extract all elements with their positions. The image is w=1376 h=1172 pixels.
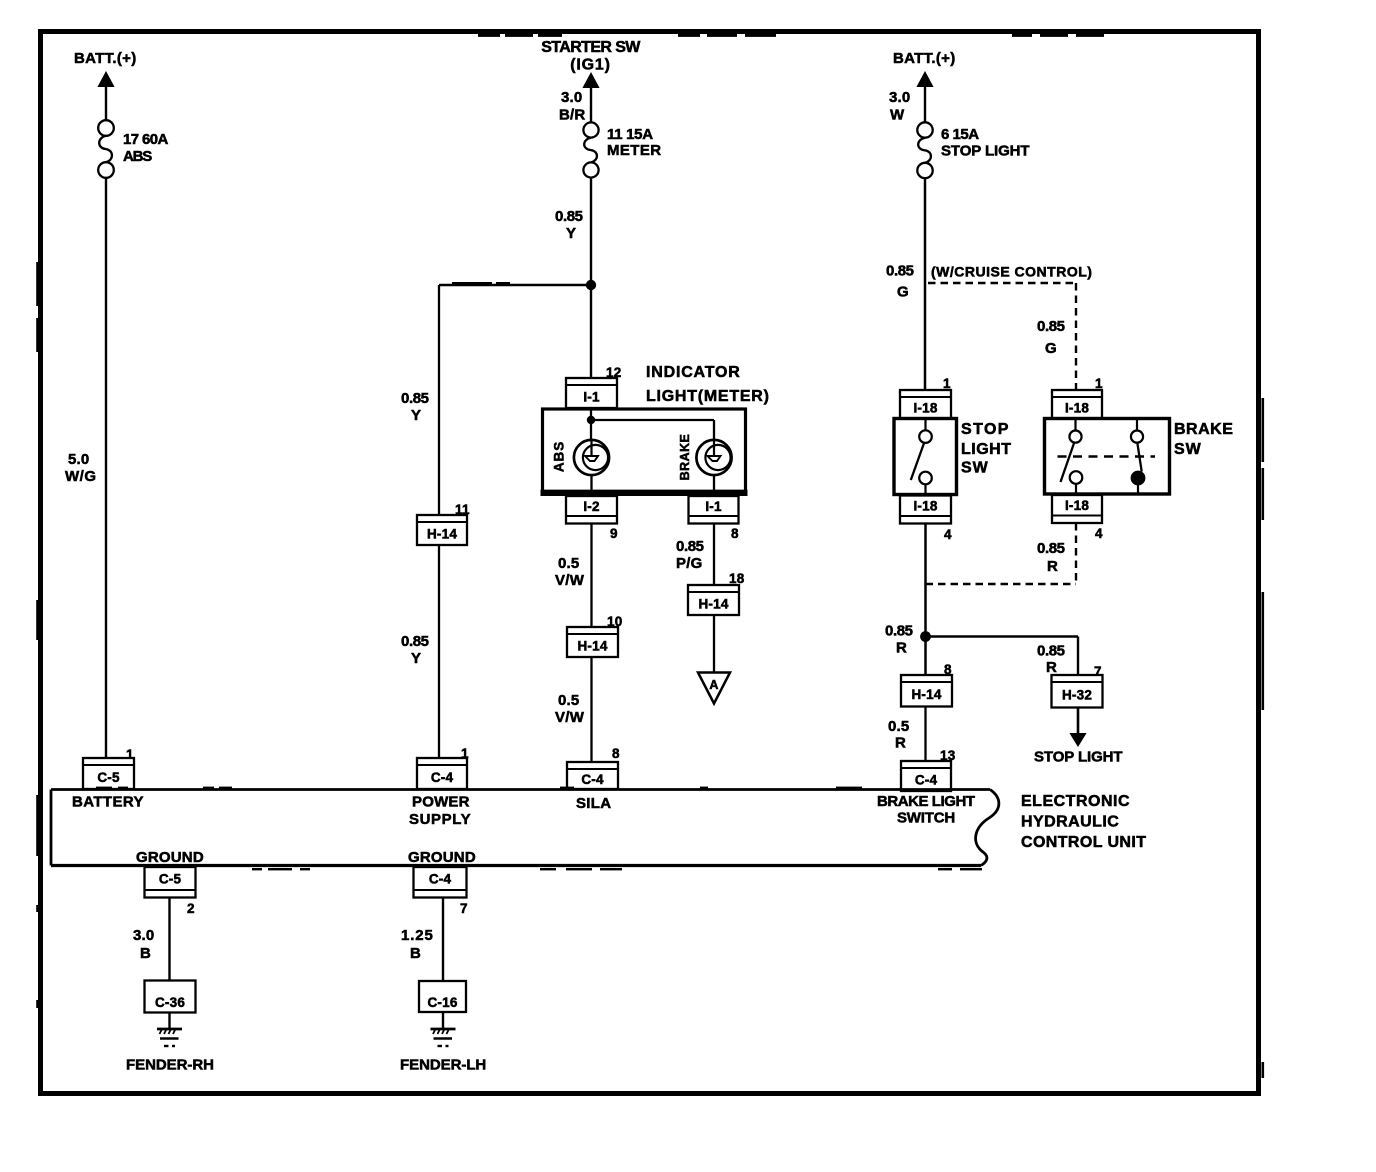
svg-text:4: 4 [1095, 526, 1103, 541]
svg-text:0.5: 0.5 [888, 718, 909, 735]
svg-text:ABS: ABS [552, 441, 567, 472]
svg-text:8: 8 [731, 526, 739, 541]
svg-text:1: 1 [943, 376, 951, 391]
svg-text:5.0: 5.0 [68, 451, 89, 468]
svg-text:BRAKE LIGHT: BRAKE LIGHT [877, 793, 975, 810]
svg-text:Y: Y [566, 225, 576, 242]
svg-text:ABS: ABS [123, 148, 152, 165]
svg-text:C-4: C-4 [431, 770, 454, 785]
svg-text:METER: METER [607, 142, 662, 159]
svg-text:0.85: 0.85 [886, 263, 914, 280]
svg-text:0.5: 0.5 [558, 692, 579, 709]
svg-text:18: 18 [729, 571, 745, 586]
svg-text:17 60A: 17 60A [123, 131, 169, 148]
svg-text:H-14: H-14 [698, 596, 728, 611]
svg-text:9: 9 [610, 526, 618, 541]
svg-text:CONTROL UNIT: CONTROL UNIT [1021, 834, 1146, 851]
svg-text:H-14: H-14 [427, 526, 457, 541]
svg-text:(W/CRUISE CONTROL): (W/CRUISE CONTROL) [931, 264, 1092, 280]
svg-text:0.5: 0.5 [558, 555, 579, 572]
svg-text:H-14: H-14 [577, 638, 607, 653]
svg-text:I-18: I-18 [1065, 498, 1089, 513]
svg-text:I-18: I-18 [913, 401, 937, 416]
svg-text:C-4: C-4 [915, 772, 938, 787]
svg-text:3.0: 3.0 [889, 89, 910, 106]
svg-text:C-4: C-4 [429, 871, 452, 886]
svg-text:V/W: V/W [555, 572, 585, 589]
svg-text:H-14: H-14 [911, 687, 941, 702]
svg-text:I-2: I-2 [583, 499, 599, 514]
svg-text:0.85: 0.85 [1037, 643, 1065, 660]
svg-text:GROUND: GROUND [136, 849, 204, 866]
svg-text:C-4: C-4 [581, 772, 604, 787]
svg-text:LIGHT: LIGHT [961, 441, 1012, 458]
svg-text:A: A [709, 678, 718, 692]
svg-text:I-18: I-18 [1065, 401, 1089, 416]
svg-text:SILA: SILA [576, 795, 611, 812]
svg-text:I-1: I-1 [583, 389, 600, 404]
svg-text:BRAKE: BRAKE [1174, 421, 1233, 438]
svg-text:C-5: C-5 [159, 871, 182, 886]
svg-text:3.0: 3.0 [561, 89, 582, 106]
svg-text:BATT.(+): BATT.(+) [74, 50, 137, 67]
svg-text:0.85: 0.85 [1037, 540, 1065, 557]
svg-text:C-36: C-36 [155, 995, 185, 1010]
svg-text:6 15A: 6 15A [941, 126, 979, 143]
svg-text:BRAKE: BRAKE [678, 434, 692, 481]
svg-text:Y: Y [411, 650, 421, 667]
svg-text:SWITCH: SWITCH [897, 810, 955, 827]
svg-text:SUPPLY: SUPPLY [409, 811, 471, 828]
svg-text:B/R: B/R [559, 107, 585, 124]
svg-text:W/G: W/G [65, 468, 97, 485]
svg-text:R: R [1046, 659, 1057, 676]
svg-text:Y: Y [411, 407, 421, 424]
svg-text:BATT.(+): BATT.(+) [893, 50, 956, 67]
svg-text:GROUND: GROUND [408, 849, 476, 866]
svg-text:G: G [1045, 340, 1057, 357]
svg-text:STARTER SW: STARTER SW [541, 39, 641, 56]
svg-text:7: 7 [460, 901, 468, 916]
svg-text:B: B [410, 945, 421, 962]
svg-text:V/W: V/W [555, 709, 585, 726]
svg-text:3.0: 3.0 [133, 927, 154, 944]
svg-text:R: R [895, 735, 906, 752]
svg-text:INDICATOR: INDICATOR [646, 364, 741, 381]
svg-text:H-32: H-32 [1062, 688, 1092, 703]
svg-text:STOP LIGHT: STOP LIGHT [1034, 749, 1122, 766]
svg-text:P/G: P/G [676, 555, 702, 572]
svg-text:STOP LIGHT: STOP LIGHT [941, 143, 1029, 160]
svg-text:2: 2 [187, 901, 195, 916]
svg-text:STOP: STOP [961, 421, 1010, 438]
svg-text:0.85: 0.85 [676, 538, 704, 555]
svg-text:SW: SW [1174, 441, 1202, 458]
svg-text:POWER: POWER [412, 794, 470, 811]
svg-text:FENDER-RH: FENDER-RH [126, 1057, 214, 1074]
svg-text:0.85: 0.85 [401, 633, 429, 650]
svg-text:C-5: C-5 [97, 770, 120, 785]
svg-text:HYDRAULIC: HYDRAULIC [1021, 814, 1119, 831]
svg-text:R: R [896, 640, 907, 657]
svg-text:R: R [1047, 558, 1058, 575]
svg-text:0.85: 0.85 [885, 623, 913, 640]
svg-text:LIGHT(METER): LIGHT(METER) [646, 388, 770, 405]
svg-text:11 15A: 11 15A [607, 126, 653, 143]
svg-text:ELECTRONIC: ELECTRONIC [1021, 793, 1130, 810]
svg-text:1: 1 [1095, 376, 1103, 391]
svg-text:FENDER-LH: FENDER-LH [400, 1057, 486, 1074]
svg-text:I-18: I-18 [913, 499, 937, 514]
svg-text:1.25: 1.25 [401, 927, 434, 944]
svg-text:4: 4 [944, 527, 952, 542]
svg-text:SW: SW [961, 460, 989, 477]
svg-text:BATTERY: BATTERY [72, 794, 144, 811]
svg-text:C-16: C-16 [427, 995, 457, 1010]
svg-text:0.85: 0.85 [401, 390, 429, 407]
svg-text:B: B [140, 945, 151, 962]
svg-text:I-1: I-1 [705, 499, 722, 514]
svg-text:0.85: 0.85 [1037, 318, 1065, 335]
svg-text:(IG1): (IG1) [570, 57, 610, 74]
svg-text:8: 8 [612, 746, 620, 761]
svg-text:0.85: 0.85 [555, 208, 583, 225]
svg-text:W: W [890, 107, 905, 124]
svg-text:G: G [897, 284, 909, 301]
